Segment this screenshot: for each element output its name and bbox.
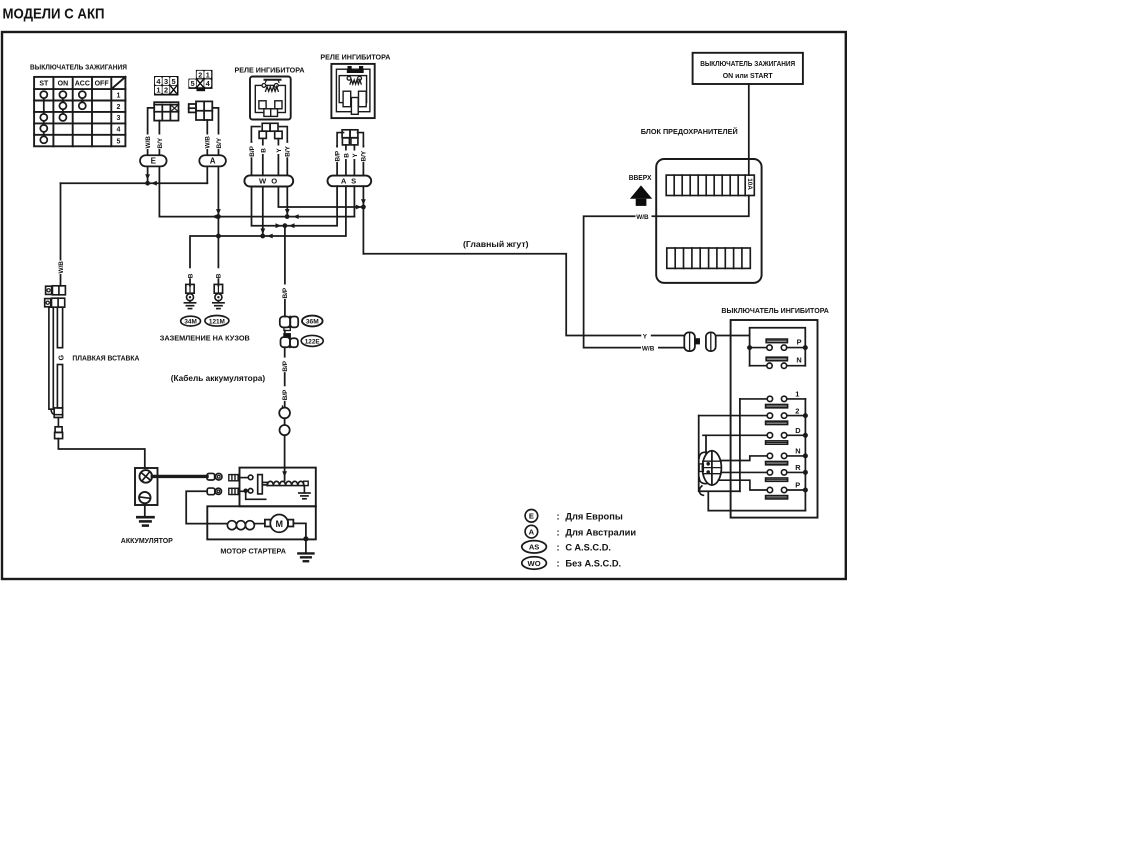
contact N of inhibitor switch	[750, 356, 806, 369]
node junction rail at D	[803, 433, 808, 438]
svg-text::: :	[557, 543, 560, 553]
svg-text:A S: A S	[341, 177, 358, 186]
wire W/B from oval E down to junction	[145, 166, 150, 183]
wire B/P to starter solenoid	[282, 435, 287, 480]
node oval E (Europe)	[140, 155, 167, 166]
wire thick battery cable	[152, 475, 207, 478]
wire bus W/B horizontal to connector A leg	[61, 166, 208, 185]
svg-text:БЛОК ПРЕДОХРАНИТЕЛЕЙ: БЛОК ПРЕДОХРАНИТЕЛЕЙ	[641, 127, 738, 136]
svg-text:(Главный жгут): (Главный жгут)	[463, 239, 529, 249]
svg-text:W/B: W/B	[205, 136, 212, 149]
svg-text:ST: ST	[39, 81, 49, 88]
node junction motor ground	[303, 536, 308, 541]
node oval WO (without ASCD)	[244, 175, 293, 186]
svg-text:ПЛАВКАЯ ВСТАВКА: ПЛАВКАЯ ВСТАВКА	[72, 353, 140, 362]
legend symbol E	[525, 510, 538, 523]
svg-text:E: E	[529, 512, 534, 521]
ignition switch ACC column contacts	[79, 91, 86, 109]
svg-text:B/Y: B/Y	[285, 145, 292, 156]
svg-text:РЕЛЕ ИНГИБИТОРА: РЕЛЕ ИНГИБИТОРА	[320, 52, 391, 61]
svg-text:C A.S.C.D.: C A.S.C.D.	[565, 543, 611, 553]
legend text Для Европы	[557, 512, 623, 522]
relay K2 connector	[337, 130, 363, 146]
svg-text:3: 3	[164, 77, 168, 86]
svg-text:B/Y: B/Y	[157, 137, 164, 148]
bullet connector 2 on battery cable	[280, 418, 290, 435]
wire Y relay K1 to oval WO	[275, 139, 283, 176]
svg-text::: :	[557, 512, 560, 522]
connector tag 121M	[205, 316, 229, 327]
wire B/Y from oval A down through junctions	[216, 166, 221, 236]
wire contact 2 left branch	[699, 416, 740, 492]
wire B from relay WO to ground bus	[260, 187, 265, 237]
node junction B/P bus	[283, 223, 288, 228]
svg-text:WO: WO	[528, 559, 541, 568]
ignition table row numbers 1-5	[117, 92, 121, 145]
svg-text:ВЫКЛЮЧАТЕЛЬ ИНГИБИТОРА: ВЫКЛЮЧАТЕЛЬ ИНГИБИТОРА	[721, 306, 829, 315]
svg-text:РЕЛЕ ИНГИБИТОРА: РЕЛЕ ИНГИБИТОРА	[235, 65, 306, 74]
svg-text:D: D	[795, 426, 801, 435]
ignition table header labels ST ON ACC OFF	[39, 81, 109, 88]
fusible link G pair	[49, 307, 65, 417]
connector pin grid 4-3-5/1-2-X for connector E	[154, 76, 179, 96]
fuse row top	[666, 175, 754, 195]
svg-text:G: G	[56, 355, 65, 361]
svg-text:W/B: W/B	[636, 214, 649, 221]
wire from fusible link to battery	[58, 439, 144, 468]
ignition switch ON column contacts	[59, 91, 66, 121]
node junction B/Y bus at A	[216, 214, 221, 219]
wire W/B from fuse to inhibitor switch	[584, 196, 749, 353]
svg-text:A: A	[210, 157, 216, 166]
svg-text:ON или START: ON или START	[723, 71, 773, 80]
cable connector lower pair	[207, 488, 221, 495]
node junction Y/B-Y at AS	[361, 205, 366, 210]
fuse row bottom	[667, 248, 751, 268]
node junction W/B at E	[145, 181, 150, 186]
label ПЛАВКАЯ ВСТАВКА	[72, 353, 140, 362]
connector on ground wire 1	[186, 284, 194, 300]
wire solenoid to motor field	[186, 491, 227, 523]
svg-text:1: 1	[206, 70, 210, 79]
svg-text:B/P: B/P	[334, 150, 341, 161]
svg-text:ВЫКЛЮЧАТЕЛЬ ЗАЖИГАНИЯ: ВЫКЛЮЧАТЕЛЬ ЗАЖИГАНИЯ	[700, 59, 795, 68]
wire main harness Y to inhibitor switch	[363, 254, 684, 340]
contact D of gear position	[703, 426, 805, 444]
label АККУМУЛЯТОР	[121, 536, 173, 545]
svg-text:B/P: B/P	[282, 287, 289, 298]
svg-text:W/B: W/B	[145, 136, 152, 149]
wire P/N contact loop	[750, 328, 806, 366]
node junction B bus at WO	[260, 234, 265, 239]
svg-text:B: B	[188, 273, 195, 278]
svg-text:Для Европы: Для Европы	[565, 512, 622, 522]
svg-text:2: 2	[198, 70, 202, 79]
solenoid plunger	[258, 475, 268, 494]
wire ignition switch to fuse	[748, 84, 750, 175]
up direction arrow symbol	[630, 185, 652, 206]
svg-text:B/P: B/P	[282, 360, 289, 371]
svg-text:B/P: B/P	[282, 389, 289, 400]
harness block upper hatched	[229, 475, 239, 481]
svg-text:B/Y: B/Y	[361, 150, 368, 161]
svg-text:5: 5	[191, 79, 195, 88]
svg-text:B: B	[343, 153, 350, 158]
svg-text:МОДЕЛИ С АКП: МОДЕЛИ С АКП	[3, 6, 105, 23]
svg-text:(Кабель аккумулятора): (Кабель аккумулятора)	[171, 373, 266, 383]
svg-text:Y: Y	[643, 333, 648, 340]
solenoid contact lower with junction	[239, 489, 266, 500]
label ВЫКЛЮЧАТЕЛЬ ИНГИБИТОРА	[721, 306, 829, 315]
wire bus B/P line between relays	[252, 186, 338, 228]
ground symbol starter motor	[298, 539, 313, 561]
inhibitor relay K1 body	[250, 77, 291, 120]
svg-text:ВЫКЛЮЧАТЕЛЬ ЗАЖИГАНИЯ: ВЫКЛЮЧАТЕЛЬ ЗАЖИГАНИЯ	[30, 63, 127, 72]
svg-text:ACC: ACC	[75, 81, 90, 88]
wire bus Y line from relay WO to AS B/Y junction	[278, 187, 363, 210]
svg-text:W O: W O	[259, 177, 279, 186]
ground symbol solenoid coil	[299, 486, 310, 499]
label (Кабель аккумулятора)	[171, 373, 266, 383]
node junction B bus at A	[216, 234, 221, 239]
node junction rail at 2	[803, 413, 808, 418]
wire B/P battery feed drop	[281, 226, 289, 317]
wire B/Y from oval E down to bus	[158, 166, 160, 216]
connector tag 122E	[301, 335, 323, 346]
wire Y relay K2 to oval AS	[351, 145, 359, 176]
inhibitor switch S2 box	[731, 320, 818, 518]
svg-text:B/Y: B/Y	[216, 137, 223, 148]
node oval A (Australia)	[199, 155, 226, 166]
svg-text:N: N	[795, 447, 800, 456]
legend text C ASCD	[557, 543, 612, 553]
connector on ground wire 2	[214, 284, 222, 300]
svg-text:2: 2	[164, 86, 168, 95]
svg-text:34M: 34M	[184, 319, 196, 326]
wire contact 1 left branch	[739, 399, 741, 491]
connector tag 34M	[181, 316, 201, 326]
fuse block body	[656, 159, 761, 283]
ignition switch S1 position table grid	[34, 77, 125, 146]
starter solenoid box	[240, 468, 316, 507]
wire bus B/Y horizontal line	[159, 214, 354, 219]
svg-text:N: N	[796, 356, 801, 365]
ground symbol body 1	[184, 301, 195, 309]
node junction W/B at P contact	[747, 345, 752, 350]
motor M symbol	[265, 515, 294, 533]
svg-text:AS: AS	[529, 543, 540, 552]
svg-text:B: B	[216, 273, 223, 278]
svg-text:B: B	[260, 148, 267, 153]
svg-text:E: E	[151, 157, 157, 166]
svg-text:4: 4	[206, 79, 210, 88]
node junction B/Y bus at WO	[285, 214, 290, 219]
starter motor M box	[207, 506, 315, 539]
legend text Без ASCD	[557, 559, 622, 569]
wire W/B left drop to fusible link	[57, 183, 65, 286]
inhibitor relay K2 body	[331, 64, 374, 118]
bullet connector 1 on battery cable	[279, 406, 290, 418]
wire B/Y from connector A to oval A	[212, 108, 223, 155]
svg-text:2: 2	[795, 406, 799, 415]
wire B/Y relay K2 to oval AS	[360, 146, 368, 176]
wire B ground branch 2	[214, 236, 222, 286]
wire B/P relay K1 to oval WO	[248, 142, 256, 175]
wire between 36M and 122E	[284, 331, 286, 337]
svg-text:R: R	[795, 463, 801, 472]
wire motor to ground	[293, 523, 306, 538]
svg-text:B/P: B/P	[249, 145, 256, 156]
node junction rail at R	[803, 470, 808, 475]
svg-text::: :	[557, 559, 560, 569]
svg-text:5: 5	[117, 138, 121, 145]
wire Y from oval AS to bus B/Y	[353, 186, 355, 216]
svg-text:Y: Y	[352, 153, 359, 158]
cable connector upper pair	[207, 473, 222, 480]
svg-text:M: M	[275, 519, 283, 529]
svg-text:АККУМУЛЯТОР: АККУМУЛЯТОР	[121, 536, 173, 545]
connector tag 36M	[302, 316, 323, 327]
svg-text:P: P	[797, 337, 802, 346]
wire B/P relay K2 to oval AS	[333, 146, 341, 176]
legend symbol WO	[522, 557, 547, 569]
svg-text:36M: 36M	[306, 319, 319, 326]
svg-text::: :	[557, 527, 560, 537]
wire W/B from connector A to oval A	[204, 120, 212, 155]
svg-text:1: 1	[795, 390, 799, 399]
wire W/B from connector E to oval E	[144, 108, 154, 155]
title МОДЕЛИ С АКП	[3, 6, 105, 23]
ground symbol battery	[137, 505, 153, 526]
motor field winding	[227, 521, 265, 530]
svg-text:2: 2	[117, 104, 121, 111]
label ВВЕРХ	[629, 175, 652, 182]
svg-text:121M: 121M	[209, 319, 225, 326]
wire B relay K2 to oval AS	[342, 145, 350, 176]
wire right common rail	[804, 399, 806, 511]
label БЛОК ПРЕДОХРАНИТЕЛЕЙ	[641, 127, 738, 136]
svg-text:10A: 10A	[746, 178, 753, 190]
harness block lower hatched	[229, 488, 239, 494]
label РЕЛЕ ИНГИБИТОРА (relay K1)	[235, 65, 306, 74]
fusible link connector bottom	[55, 418, 63, 439]
label ЗАЗЕМЛЕНИЕ НА КУЗОВ	[160, 334, 250, 343]
legend symbol A	[525, 525, 538, 538]
wire bus B ground line	[190, 186, 346, 286]
ground symbol body 2	[213, 301, 224, 309]
svg-text:W/B: W/B	[58, 261, 65, 274]
svg-text:122E: 122E	[305, 339, 321, 346]
svg-text:ВВЕРХ: ВВЕРХ	[629, 175, 652, 182]
svg-text:A: A	[529, 527, 535, 536]
svg-text:1: 1	[117, 92, 121, 99]
svg-text:Y: Y	[276, 148, 283, 153]
legend text Для Австралии	[557, 527, 637, 537]
label РЕЛЕ ИНГИБИТОРА (relay K2)	[320, 52, 391, 61]
node junction rail at P	[803, 488, 808, 493]
solenoid contact upper	[239, 475, 253, 480]
svg-text:4: 4	[117, 127, 121, 134]
svg-text:P: P	[795, 481, 800, 490]
contact P of gear position	[718, 480, 805, 499]
inline connector half left	[684, 332, 699, 351]
connector pin grid 2-1/5-X-4 for connector A	[188, 70, 212, 91]
contact 1 of gear position	[740, 390, 806, 408]
svg-text:ЗАЗЕМЛЕНИЕ НА КУЗОВ: ЗАЗЕМЛЕНИЕ НА КУЗОВ	[160, 334, 250, 343]
solenoid pull-in coil	[267, 481, 308, 485]
ignition switch label ВЫКЛЮЧАТЕЛЬ ЗАЖИГАНИЯ	[30, 63, 127, 72]
node junction right at P contact	[803, 345, 808, 350]
wire B ground branch 1 label	[186, 268, 194, 278]
node junction rail at N	[803, 453, 808, 458]
connector body 122E inline	[281, 334, 298, 348]
wire B relay K1 to oval WO	[259, 138, 267, 175]
multi-pin connector oval of inhibitor switch	[699, 451, 721, 496]
wire B/Y from connector E to oval E	[156, 121, 164, 156]
svg-text:5: 5	[172, 77, 176, 86]
svg-text:МОТОР СТАРТЕРА: МОТОР СТАРТЕРА	[220, 547, 286, 556]
battery GB1 body	[135, 468, 158, 505]
ignition switch ST column contacts	[40, 91, 47, 143]
contact R of gear position	[721, 463, 806, 481]
svg-text:ON: ON	[58, 81, 69, 88]
svg-text:1: 1	[156, 86, 160, 95]
node oval AS (with ASCD)	[328, 176, 372, 187]
wire bottom common return	[708, 492, 805, 511]
connector body 36M inline	[280, 317, 298, 331]
inline connector half right	[706, 332, 716, 351]
wire B/Y from relay WO to bus	[285, 187, 290, 217]
wire Y stub into P/N loop	[716, 335, 750, 337]
connector A body	[189, 101, 213, 120]
contact P of inhibitor switch	[750, 337, 806, 350]
wire contact D left branch	[705, 435, 707, 453]
label (Главный жгут)	[463, 239, 529, 249]
wire B/Y relay K1 to oval WO	[284, 142, 292, 175]
contact 2 of gear position	[699, 406, 806, 424]
svg-text:OFF: OFF	[95, 81, 110, 88]
svg-text:3: 3	[117, 115, 121, 122]
contact N of gear position	[721, 447, 805, 465]
svg-text:W/B: W/B	[642, 345, 655, 352]
connector E body	[154, 102, 178, 120]
fuse value 10A	[746, 178, 753, 190]
wire B/Y from oval AS down to main harness corner	[361, 186, 366, 254]
fusible link connector top	[45, 286, 66, 307]
legend symbol AS	[522, 541, 547, 553]
svg-text:Без A.S.C.D.: Без A.S.C.D.	[565, 559, 621, 569]
relay K1 connector	[251, 123, 287, 142]
svg-text:Для Австралии: Для Австралии	[565, 527, 636, 537]
wire B/P battery cable section	[281, 347, 289, 407]
ignition switch feed box ON или START	[693, 53, 803, 84]
label МОТОР СТАРТЕРА	[220, 547, 286, 556]
